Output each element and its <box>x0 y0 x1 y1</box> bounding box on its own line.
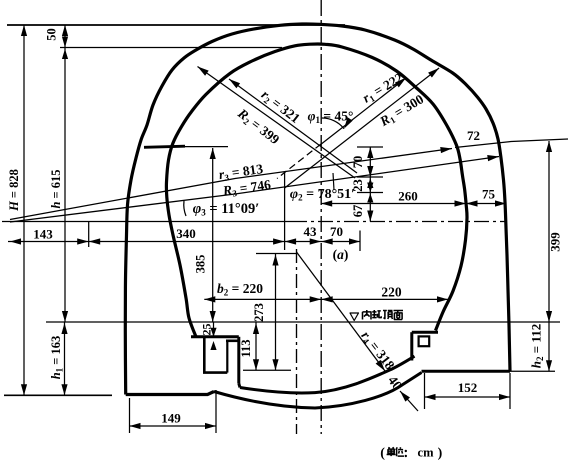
svg-text:H = 828: H = 828 <box>7 169 21 212</box>
wire trough bottom <box>203 371 227 374</box>
label wei <box>396 447 404 456</box>
svg-text:23: 23 <box>351 179 365 192</box>
svg-text:h = 615: h = 615 <box>49 169 63 208</box>
wire trough outer right wall <box>237 337 240 384</box>
wire tick v177 <box>357 176 383 178</box>
label gui <box>372 310 381 318</box>
wire rail top datum line <box>46 321 560 323</box>
dim 220 line <box>321 298 448 300</box>
wire ext 152 left <box>424 373 426 409</box>
dim chain row line <box>8 241 360 243</box>
wire R2 leader line <box>198 67 356 179</box>
svg-text:72: 72 <box>467 128 480 143</box>
wire r3 leader line <box>10 149 452 220</box>
wire left ledge top <box>191 335 239 338</box>
dim chain left arrow <box>10 238 21 244</box>
dim b2 line <box>204 298 321 300</box>
node tunnel centerline <box>320 0 322 434</box>
dim 260-75 line <box>321 203 506 205</box>
wire h2 bottom extension <box>510 370 555 372</box>
wire tick v147 <box>357 146 383 148</box>
wire phi3 datum line <box>2 221 292 223</box>
wire b-extension line <box>284 172 286 250</box>
wire tunnel inner contour <box>166 44 467 337</box>
svg-text:340: 340 <box>176 226 196 241</box>
svg-text:50: 50 <box>45 28 59 41</box>
label dan <box>387 447 396 456</box>
dim 273 line <box>275 254 277 371</box>
svg-text:273: 273 <box>252 303 266 322</box>
wire trough right seat <box>226 339 239 342</box>
wire phi1 angle arc <box>322 118 344 129</box>
dim 25 line <box>213 322 215 337</box>
dim 143-340 junction <box>77 238 89 244</box>
wire r4 leader line <box>297 252 386 371</box>
wire 273 top tick <box>256 253 297 255</box>
wire r2 leader line <box>229 79 357 173</box>
dim 385 line <box>212 148 214 322</box>
wire wall joint left <box>144 146 185 147</box>
label mian <box>394 311 404 320</box>
wire trough bottom tick <box>243 369 291 371</box>
dim 152 line <box>425 396 511 398</box>
dim H=828 line <box>23 25 25 395</box>
wire tunnel outer contour <box>125 24 510 395</box>
svg-text:): ) <box>438 446 443 461</box>
svg-text:399: 399 <box>548 232 563 252</box>
node track centerline <box>296 249 298 434</box>
svg-text:h1 = 163: h1 = 163 <box>49 336 65 380</box>
svg-text:75: 75 <box>482 187 496 202</box>
label ding <box>383 311 393 320</box>
svg-text:φ1 = 45°: φ1 = 45° <box>308 109 354 126</box>
wire 143-340 junction ext <box>88 222 90 247</box>
wire ext 149 right <box>215 390 217 433</box>
wire right ditch top edge <box>412 331 438 334</box>
svg-text:43: 43 <box>304 224 318 239</box>
node rail surface mark <box>350 313 359 321</box>
svg-text:(: ( <box>380 446 385 461</box>
wire right footing bottom <box>422 370 511 373</box>
wire trough left wall <box>203 338 206 373</box>
wire ext 70 right <box>359 231 361 252</box>
svg-text:(a): (a) <box>333 247 349 262</box>
wire right joint line 72 <box>455 139 568 148</box>
dim 340-43 junction <box>273 238 285 244</box>
wire phi3 angle arc <box>184 201 186 216</box>
wire right ditch left wall <box>410 332 413 360</box>
wire tunnel floor arc <box>240 356 415 393</box>
dim h=615 line <box>64 25 66 322</box>
svg-text:152: 152 <box>458 380 478 395</box>
svg-text:67: 67 <box>351 205 365 218</box>
wire joint tick left ext <box>185 146 228 148</box>
dim v-chain arrows <box>367 147 373 158</box>
wire tick v192 <box>357 192 383 194</box>
wire ext 152 right <box>509 373 511 409</box>
wire right ditch hole <box>419 336 430 346</box>
svg-text:h2 = 112: h2 = 112 <box>529 324 546 368</box>
wire dashed construction line <box>277 144 321 179</box>
wire ext 149 left <box>129 398 131 433</box>
label nei <box>363 310 372 320</box>
wire top clearance line <box>7 24 345 26</box>
svg-text:25: 25 <box>200 324 214 336</box>
wire H base line <box>4 394 112 396</box>
dim h2 line <box>548 322 550 371</box>
wire trough to floor join <box>239 384 240 388</box>
dim 43-70 junction <box>310 238 322 244</box>
wire R1 leader line <box>285 68 440 188</box>
dim chain right arrow <box>349 238 360 244</box>
wire r1 leader line <box>320 78 406 145</box>
wire R3 leader line <box>10 157 499 223</box>
wire trough right wall <box>226 341 228 373</box>
dim 149 line <box>130 425 217 427</box>
svg-text:113: 113 <box>239 339 253 357</box>
label unit colon <box>405 450 407 452</box>
wire invert lower arc <box>214 373 422 409</box>
dim 399 line <box>548 141 550 322</box>
svg-text:cm: cm <box>418 446 435 460</box>
wire phi2 angle stub <box>333 173 334 190</box>
svg-text:220: 220 <box>381 285 402 300</box>
svg-text:143: 143 <box>33 227 53 242</box>
dim 113 line <box>255 322 257 370</box>
svg-text:70: 70 <box>351 156 365 169</box>
wire 40 leader line <box>400 391 418 411</box>
svg-text:385: 385 <box>194 255 208 274</box>
wire left footing bottom <box>126 392 214 395</box>
svg-text:149: 149 <box>161 411 181 426</box>
svg-text:260: 260 <box>398 189 418 204</box>
dim h1=163 line <box>64 322 66 395</box>
dim v-chain line <box>369 147 371 222</box>
wire crown inner tangent line <box>60 47 282 49</box>
svg-text:70: 70 <box>330 224 343 239</box>
